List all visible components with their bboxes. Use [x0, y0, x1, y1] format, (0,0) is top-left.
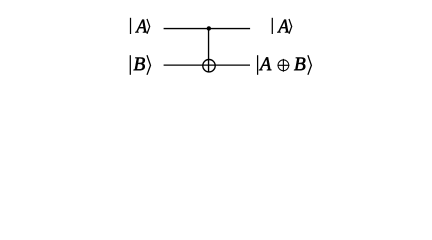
ket bar | bottom-left [129, 55, 131, 75]
wire: vertical control-target connector [208, 29, 210, 73]
letter B bottom-right output [294, 57, 305, 70]
quantum CNOT circuit diagram [0, 0, 432, 91]
letter A bottom-right output [259, 57, 271, 70]
ket bar | top-left [130, 18, 132, 34]
angle bracket top-left [147, 19, 150, 34]
wire: bottom qubit line [164, 64, 250, 66]
letter A top-right output [277, 20, 289, 33]
wire: top qubit line [164, 28, 251, 30]
ket bar | bottom-right [257, 55, 259, 75]
angle bracket tall bottom-left [147, 55, 151, 75]
oplus symbol in output label [277, 59, 289, 72]
letter B bottom-left input [134, 57, 145, 70]
target XOR circle on bottom wire [203, 59, 215, 71]
control dot on top wire [207, 26, 211, 30]
angle bracket tall bottom-right [308, 55, 312, 75]
letter A top-left input [135, 20, 147, 33]
angle bracket top-right [289, 19, 292, 34]
ket bar | top-right [271, 18, 273, 34]
